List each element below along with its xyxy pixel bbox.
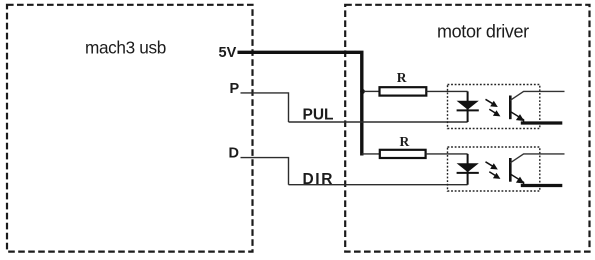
U1 light arrow 1 [486,99,494,104]
svg-text:R: R [400,134,410,149]
mach3 usb enclosure box [7,5,253,252]
wire DIR line [289,184,468,186]
U2 transistor collector [510,154,564,163]
junction at 5V/R1 branch [360,89,365,94]
U1 LED cathode bar [457,109,479,111]
U2 light arrow 2 [489,172,496,177]
optocoupler U1 [448,85,565,129]
svg-text:P: P [230,81,240,97]
U1 transistor emitter with arrow [510,112,523,123]
svg-text:5V: 5V [219,45,237,61]
svg-text:mach3 usb: mach3 usb [85,38,166,58]
wire PUL line [289,121,468,123]
optocoupler U2 [448,147,565,191]
U1 transistor base bar [509,96,512,120]
U2 package outline [448,147,540,191]
resistor R2 [380,134,426,158]
svg-text:D: D [229,146,239,162]
wire D to DIR [241,158,289,185]
U2 transistor emitter with arrow [510,174,523,185]
U2 LED anode/cathode wire [467,154,469,185]
wire 5V branch to R2 [362,153,380,155]
U1 LED anode/cathode wire [467,91,469,122]
resistor R1 [380,70,427,96]
svg-text:R: R [397,70,407,85]
U2 emitter output wire (thick) [521,184,563,187]
U2 transistor base bar [509,158,512,182]
wire R2 to optocoupler U2 LED [426,153,468,155]
svg-text:DIR: DIR [303,171,335,188]
motor driver enclosure box [345,5,589,252]
U2 LED cathode bar [457,172,479,174]
U1 package outline [448,85,540,129]
wire R1 to optocoupler U1 LED [426,90,467,92]
wire 5V branch to R1 [364,90,380,92]
U1 light arrow 2 [489,109,496,114]
svg-text:motor driver: motor driver [437,22,529,42]
U1 LED body [457,101,479,110]
U1 transistor collector [510,91,564,100]
U2 light arrow 1 [486,162,494,167]
U1 emitter output wire (thick) [521,121,563,124]
U2 LED body [457,163,479,172]
wire 5V bus (thick) [238,52,362,155]
wire P to PUL [241,93,289,122]
svg-text:PUL: PUL [303,106,334,123]
